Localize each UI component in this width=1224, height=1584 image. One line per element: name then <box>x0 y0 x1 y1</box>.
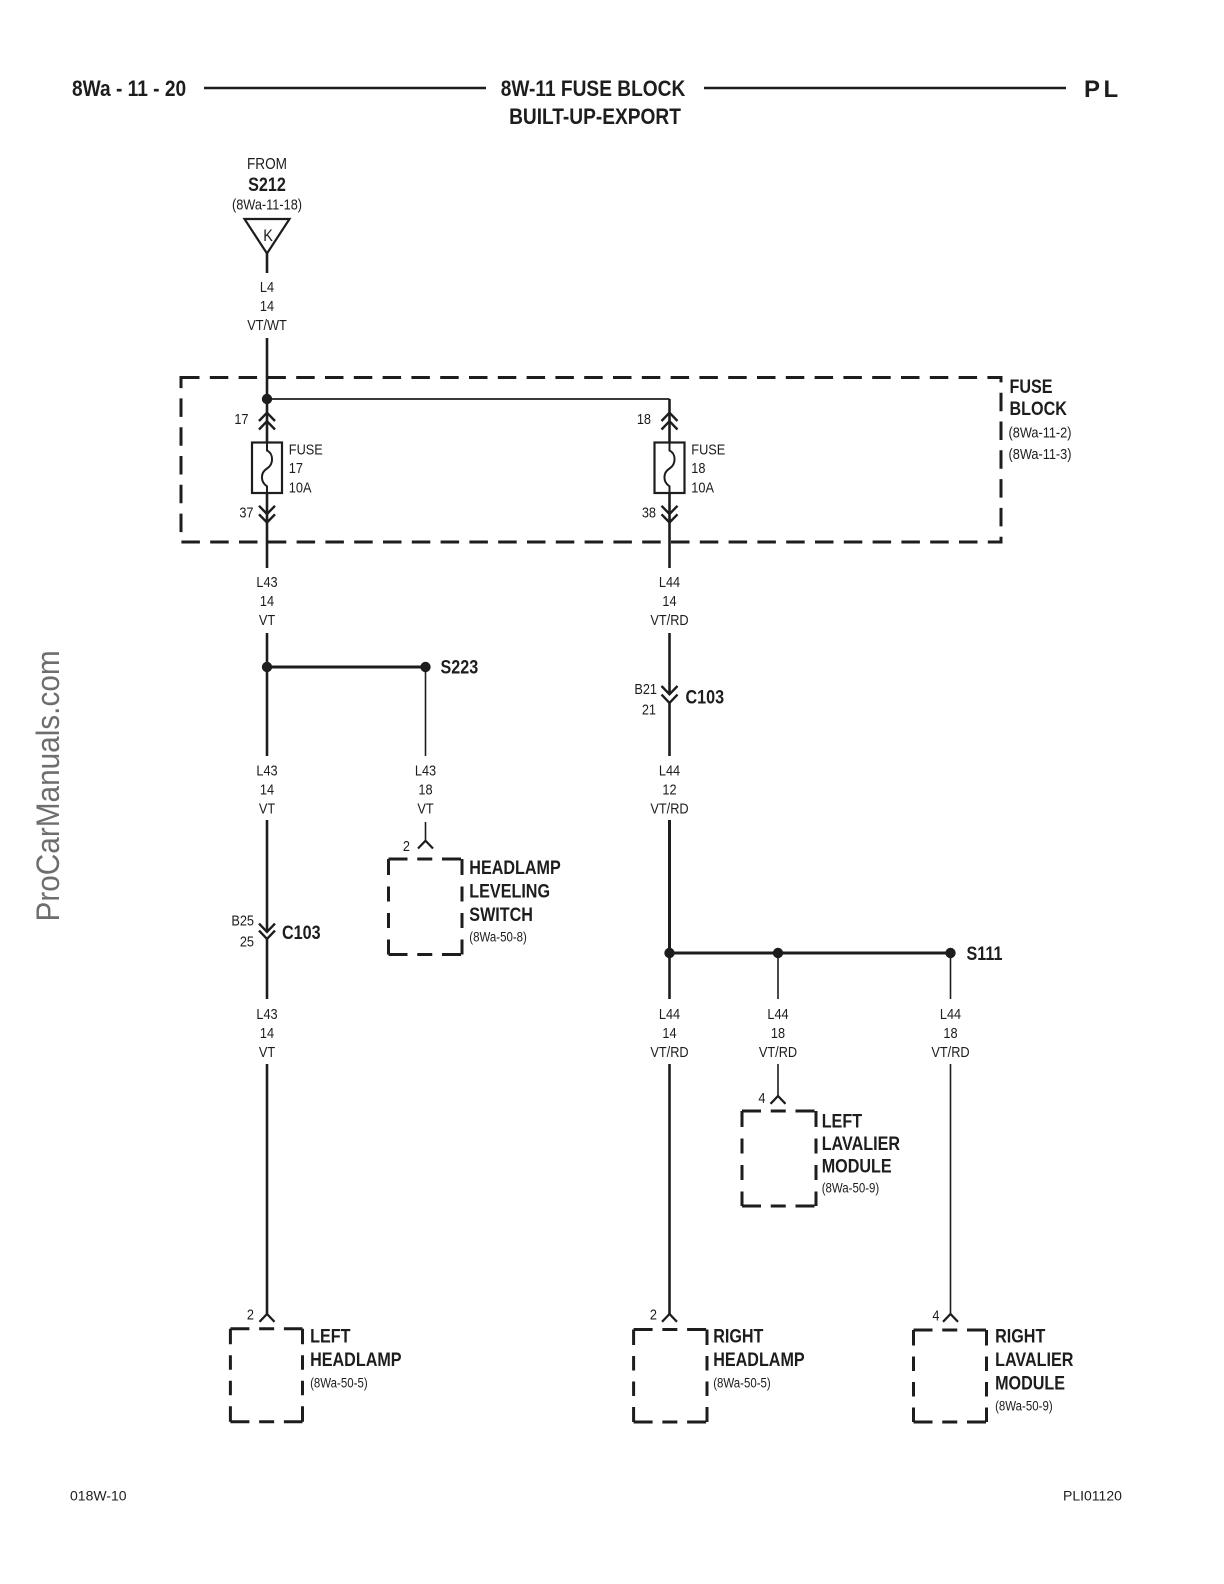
svg-text:VT: VT <box>259 1043 276 1060</box>
svg-text:B25: B25 <box>231 911 254 928</box>
svg-text:MODULE: MODULE <box>995 1372 1065 1394</box>
svg-text:8W-11 FUSE BLOCK: 8W-11 FUSE BLOCK <box>501 77 686 102</box>
wire label L44 18 VT/RD row C right <box>931 1005 969 1060</box>
pin B25/25 labels <box>231 911 254 949</box>
connector arrow into left headlamp <box>260 1314 275 1322</box>
svg-text:4: 4 <box>932 1306 939 1323</box>
wire to fuse 18 <box>668 399 671 443</box>
svg-text:BLOCK: BLOCK <box>1010 398 1068 420</box>
wire below C103 left to row C <box>668 953 671 999</box>
wire to fuse 17 <box>266 399 269 443</box>
svg-text:VT/RD: VT/RD <box>650 1043 688 1060</box>
svg-text:PL: PL <box>1084 76 1122 103</box>
header rule left <box>204 87 486 89</box>
connector arrow into left lavalier module <box>771 1096 786 1104</box>
connector arrow into right lavalier module <box>943 1314 958 1322</box>
svg-text:L4: L4 <box>260 278 274 295</box>
left lavalier module box <box>742 1111 816 1206</box>
svg-text:HEADLAMP: HEADLAMP <box>469 857 561 879</box>
svg-text:17: 17 <box>289 459 303 476</box>
svg-text:PLI01120: PLI01120 <box>1063 1488 1122 1504</box>
right lavalier module box <box>914 1330 987 1422</box>
headlamp leveling switch label <box>469 857 561 945</box>
svg-text:VT/RD: VT/RD <box>650 611 688 628</box>
pin 38 connector chevrons <box>662 506 678 523</box>
svg-text:B21: B21 <box>634 680 657 697</box>
splice node dot S111 b <box>773 948 783 958</box>
svg-text:LAVALIER: LAVALIER <box>822 1133 901 1155</box>
svg-text:14: 14 <box>260 1024 274 1041</box>
svg-text:LEFT: LEFT <box>310 1325 351 1347</box>
svg-text:FUSE: FUSE <box>1010 376 1053 398</box>
wire from S212 triangle <box>266 254 269 274</box>
wire into fuse block <box>266 338 269 399</box>
wire label L4 14 VT/WT <box>247 278 287 333</box>
svg-text:VT/RD: VT/RD <box>650 799 688 816</box>
pin B21/21 labels <box>634 680 657 718</box>
svg-text:8Wa - 11 - 20: 8Wa - 11 - 20 <box>72 77 186 102</box>
svg-text:L43: L43 <box>415 761 436 778</box>
splice node dot right <box>420 662 430 672</box>
svg-text:BUILT-UP-EXPORT: BUILT-UP-EXPORT <box>509 105 681 130</box>
pin 17 connector chevrons <box>259 413 275 430</box>
splice node dot S111 a <box>664 948 674 958</box>
wire label L44 12 VT/RD <box>650 761 688 816</box>
wire below fuse 17 <box>266 493 269 568</box>
pin 18 connector chevrons <box>662 413 678 430</box>
wire label L43 14 VT row C <box>256 1005 277 1060</box>
svg-text:HEADLAMP: HEADLAMP <box>713 1349 805 1371</box>
svg-text:38: 38 <box>642 503 656 520</box>
svg-text:C103: C103 <box>282 922 321 944</box>
svg-text:S212: S212 <box>248 174 286 196</box>
svg-text:FROM: FROM <box>247 156 287 173</box>
svg-text:C103: C103 <box>686 686 725 708</box>
svg-text:(8Wa-50-5): (8Wa-50-5) <box>310 1376 368 1391</box>
svg-text:21: 21 <box>642 700 656 717</box>
wire below fuse 18 <box>668 493 671 568</box>
svg-text:SWITCH: SWITCH <box>469 904 533 926</box>
wire label L43 14 VT row B <box>256 761 277 816</box>
svg-text:VT: VT <box>259 799 276 816</box>
wire from fuse 18 to C103 <box>668 633 671 694</box>
svg-text:VT/WT: VT/WT <box>247 316 287 333</box>
connector arrow into right headlamp <box>662 1314 677 1322</box>
wire to left lavalier module <box>777 1064 779 1096</box>
svg-text:4: 4 <box>758 1089 765 1106</box>
svg-text:VT: VT <box>417 799 434 816</box>
svg-text:14: 14 <box>260 780 274 797</box>
svg-text:LEVELING: LEVELING <box>469 880 550 902</box>
off-page connector label FROM S212 <box>232 156 302 213</box>
svg-text:VT/RD: VT/RD <box>931 1043 969 1060</box>
svg-text:2: 2 <box>247 1305 254 1322</box>
svg-text:MODULE: MODULE <box>822 1155 892 1177</box>
connector C103 chevrons left <box>259 924 275 939</box>
svg-text:(8Wa-11-18): (8Wa-11-18) <box>232 195 302 212</box>
header rule right <box>704 87 1066 89</box>
svg-text:25: 25 <box>240 932 254 949</box>
svg-text:RIGHT: RIGHT <box>995 1325 1045 1347</box>
wire bus inside fuse block <box>267 398 670 400</box>
wire below S111 b <box>777 953 779 999</box>
wire label L44 18 VT/RD row C middle <box>759 1005 797 1060</box>
wire to left headlamp <box>266 1064 269 1314</box>
headlamp leveling switch box <box>389 859 463 955</box>
svg-text:12: 12 <box>662 780 676 797</box>
svg-text:L43: L43 <box>256 761 277 778</box>
fuse block label <box>1009 376 1072 462</box>
svg-text:S223: S223 <box>441 656 479 678</box>
svg-text:18: 18 <box>771 1024 785 1041</box>
svg-text:14: 14 <box>662 1024 676 1041</box>
svg-text:L44: L44 <box>659 1005 680 1022</box>
junction node at fuse feed <box>262 394 272 404</box>
svg-text:018W-10: 018W-10 <box>70 1488 127 1504</box>
svg-text:L44: L44 <box>940 1005 961 1022</box>
fuse F17 value label <box>289 440 323 495</box>
svg-text:(8Wa-50-8): (8Wa-50-8) <box>469 930 527 945</box>
left headlamp box <box>230 1329 302 1422</box>
wire label L44 14 VT/RD row C <box>650 1005 688 1060</box>
svg-text:L44: L44 <box>659 761 680 778</box>
svg-text:(8Wa-11-3): (8Wa-11-3) <box>1009 445 1072 462</box>
wire label L44 14 VT/RD <box>650 573 688 628</box>
pin 37 connector chevrons <box>259 506 275 523</box>
svg-text:10A: 10A <box>289 478 312 495</box>
svg-text:(8Wa-50-9): (8Wa-50-9) <box>822 1181 880 1196</box>
svg-text:18: 18 <box>637 410 651 427</box>
connector arrow into HLS <box>418 841 433 849</box>
wire to splice S223 <box>266 633 269 667</box>
wire below S223 left <box>266 667 269 756</box>
svg-text:18: 18 <box>418 780 432 797</box>
wire from HLS branch to arrow <box>425 822 427 841</box>
svg-text:(8Wa-50-5): (8Wa-50-5) <box>713 1376 771 1391</box>
wire below C103 left <box>266 939 269 999</box>
svg-text:14: 14 <box>260 297 274 314</box>
wire to C103 left <box>266 820 269 932</box>
svg-text:VT/RD: VT/RD <box>759 1043 797 1060</box>
svg-text:FUSE: FUSE <box>691 440 725 457</box>
splice S111 bus <box>670 952 951 955</box>
svg-text:L43: L43 <box>256 1005 277 1022</box>
svg-text:FUSE: FUSE <box>289 440 323 457</box>
fuse F18 value label <box>691 440 725 495</box>
wire label L43 14 VT <box>256 573 277 628</box>
svg-text:18: 18 <box>943 1024 957 1041</box>
fuse block dashed box <box>181 378 1001 543</box>
svg-text:14: 14 <box>662 592 676 609</box>
svg-text:L44: L44 <box>659 573 680 590</box>
off-page connector triangle K <box>245 219 290 254</box>
svg-text:L43: L43 <box>256 573 277 590</box>
svg-text:14: 14 <box>260 592 274 609</box>
svg-text:RIGHT: RIGHT <box>713 1325 763 1347</box>
right headlamp label <box>713 1325 805 1390</box>
svg-text:S111: S111 <box>967 943 1003 965</box>
wire to right headlamp <box>668 1064 671 1314</box>
svg-text:2: 2 <box>650 1305 657 1322</box>
fuse F17 body <box>252 443 282 494</box>
connector C103 chevrons right <box>662 686 678 703</box>
svg-text:VT: VT <box>259 611 276 628</box>
wire from C103 to splice S111 <box>668 820 671 953</box>
wire below C103 right <box>668 703 671 756</box>
right lavalier module label <box>995 1325 1074 1413</box>
svg-text:(8Wa-50-9): (8Wa-50-9) <box>995 1399 1053 1414</box>
svg-text:LEFT: LEFT <box>822 1110 863 1132</box>
svg-text:HEADLAMP: HEADLAMP <box>310 1349 402 1371</box>
right headlamp box <box>634 1330 707 1423</box>
svg-text:ProCarManuals.com: ProCarManuals.com <box>30 650 66 921</box>
svg-text:LAVALIER: LAVALIER <box>995 1349 1074 1371</box>
left headlamp label <box>310 1325 402 1390</box>
left lavalier module label <box>822 1110 901 1195</box>
splice S223 bus <box>267 666 426 669</box>
svg-text:37: 37 <box>239 503 253 520</box>
svg-text:18: 18 <box>691 459 705 476</box>
wire label L43 18 VT <box>415 761 436 816</box>
svg-text:17: 17 <box>234 410 248 427</box>
svg-text:10A: 10A <box>691 478 714 495</box>
wire to right lavalier module <box>950 1064 952 1314</box>
wire below S111 c <box>950 953 952 999</box>
splice node dot left <box>262 662 272 672</box>
svg-text:L44: L44 <box>767 1005 788 1022</box>
splice node dot S111 c <box>945 948 955 958</box>
svg-text:K: K <box>263 227 273 245</box>
fuse F18 body <box>655 443 685 494</box>
svg-text:(8Wa-11-2): (8Wa-11-2) <box>1009 423 1072 440</box>
svg-text:2: 2 <box>403 837 410 854</box>
wire to headlamp leveling switch <box>425 667 427 756</box>
